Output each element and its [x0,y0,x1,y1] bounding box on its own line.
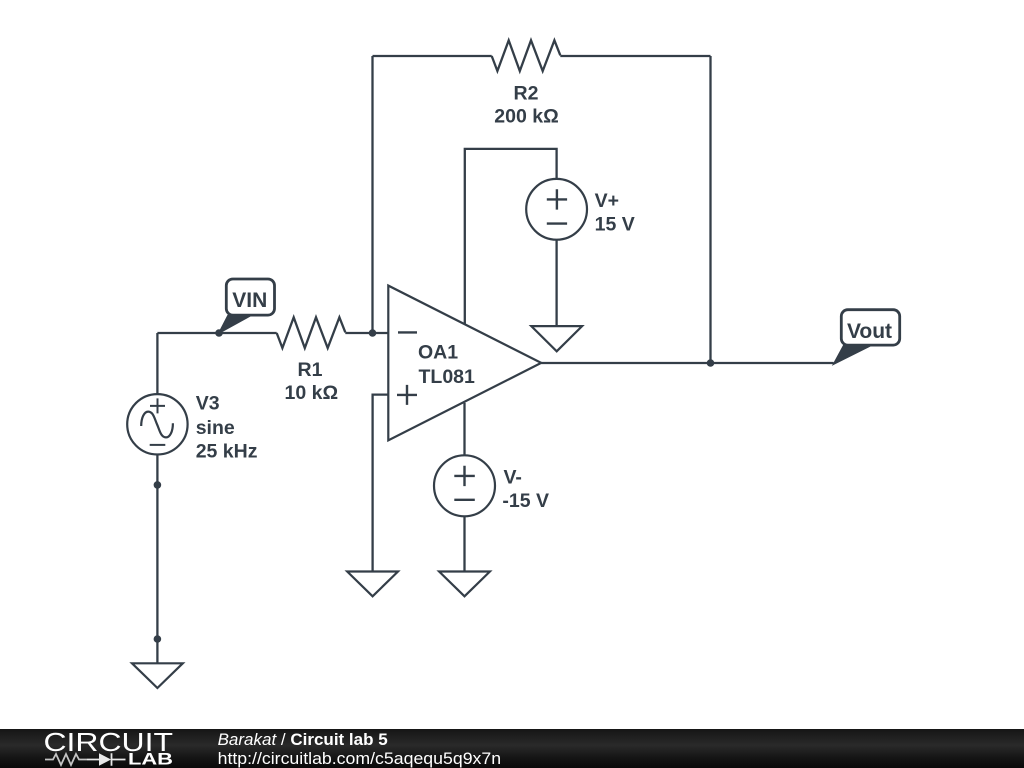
junction node: above V3 ground dot [154,635,162,643]
junction node: output dot [707,359,715,367]
wire: V3 bottom stem to ground [156,455,158,664]
ground (V+ source) [531,326,582,351]
svg-text:Barakat / Circuit lab 5: Barakat / Circuit lab 5 [218,730,388,749]
junction node: below V3 dot [154,481,162,489]
wire: R2 left lead [373,55,492,57]
label V+ 15 V [595,190,635,236]
svg-text:LAB: LAB [128,750,173,768]
svg-text:R2: R2 [514,82,539,104]
label R2 value [494,82,558,127]
svg-text:OA1: OA1 [418,342,458,364]
svg-text:200 kΩ: 200 kΩ [494,105,558,127]
node label VIN pointer tail [219,316,249,334]
junction node: inverting input dot [369,329,377,337]
wire: V+ source to ground [555,240,557,326]
svg-text:V-: V- [504,467,522,489]
wire: feedback left vertical (inverting node to R2) [371,56,373,333]
voltage source V+ (15 V) [526,179,587,240]
voltage source V- (-15 V) [434,455,495,516]
op-amp OA1 non-inverting pin plus symbol [397,385,417,405]
svg-text:25 kHz: 25 kHz [196,441,258,463]
wire: R1 right lead to inverting input [345,332,388,334]
node label Vout pointer tail [834,345,868,364]
wire: V3 top stem [156,333,158,394]
svg-text:R1: R1 [298,359,323,381]
label R1 value [285,359,339,404]
wire: op-amp V- pin to V- source [463,403,465,456]
ground (V- source) [439,572,490,597]
ground (V3) [132,663,183,688]
ground (non-inverting input) [347,572,398,597]
voltage source V3 (sine) [127,394,187,454]
svg-text:http://circuitlab.com/c5aqequ5: http://circuitlab.com/c5aqequ5q9x7n [218,749,502,768]
node label VIN box [226,279,274,315]
label V3 sine 25 kHz [196,392,258,462]
svg-text:-15 V: -15 V [502,490,549,512]
svg-text:V3: V3 [196,392,220,414]
footer bar [0,729,1024,768]
svg-text:10 kΩ: 10 kΩ [285,382,339,404]
wire: V- source to ground [463,516,465,571]
svg-text:TL081: TL081 [419,366,476,388]
svg-text:V+: V+ [595,190,619,212]
wire: op-amp output [541,362,833,364]
CircuitLab logo resistor squiggle [45,754,87,765]
label V- -15 V [502,467,549,513]
op-amp OA1 triangle [388,286,541,441]
junction node: VIN node dot [215,329,223,337]
svg-text:15 V: 15 V [595,214,635,236]
op-amp OA1 inverting pin minus symbol [398,331,417,333]
svg-text:Vout: Vout [847,320,892,343]
svg-text:sine: sine [196,417,235,439]
label OA1 TL081 [418,342,475,388]
wire: op-amp V+ pin to V+ source [465,149,557,324]
resistor R2 [492,40,561,71]
node label Vout box [841,310,899,345]
wire: feedback right vertical (R2 to output) [709,56,711,363]
svg-text:VIN: VIN [232,289,267,312]
wire: R2 right lead [560,55,710,57]
wire: non-inverting input to ground [373,395,389,572]
CircuitLab logo diode [99,753,111,766]
resistor R1 [277,317,346,348]
wire: input wire from V3 to R1 [157,332,276,334]
